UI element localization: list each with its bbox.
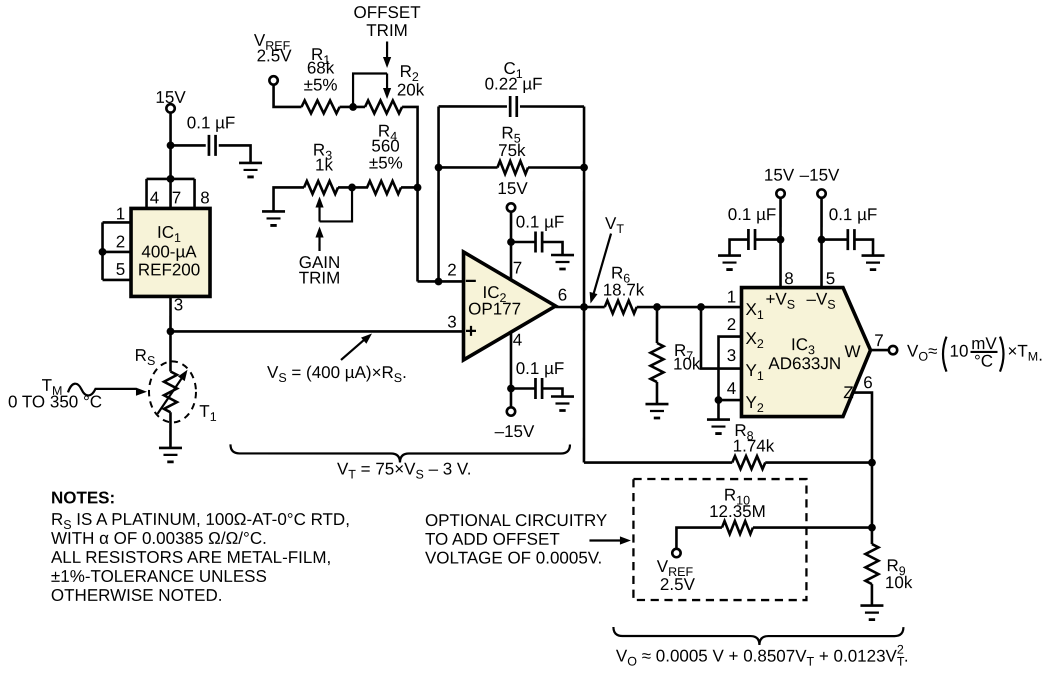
svg-text:6: 6 [863, 373, 872, 392]
ground R9 [860, 606, 883, 620]
wire R7 down [656, 307, 659, 343]
wire Y2 node to ground [717, 400, 720, 420]
svg-text:VS = (400 µA)×RS.: VS = (400 µA)×RS. [267, 363, 407, 385]
wire R4 right to branch [401, 186, 418, 189]
wire top pin bus of IC1 [147, 179, 195, 209]
wire wiper elbow to node [353, 73, 387, 107]
svg-text:AD633JN: AD633JN [768, 354, 841, 373]
svg-text:5: 5 [826, 269, 835, 288]
svg-text:400-µA: 400-µA [141, 242, 197, 261]
svg-text:0.1 µF: 0.1 µF [728, 205, 777, 224]
wire R6 to AD633 X1 [637, 306, 742, 309]
wire R3 to R4 [338, 186, 368, 189]
minus sign pin2 [466, 280, 476, 282]
resistor R9 10k [865, 544, 878, 584]
resistor R8 1.74k [732, 456, 765, 469]
resistor R10 12.35M [722, 521, 753, 534]
svg-text:6: 6 [558, 286, 567, 305]
resistor R2 20k pot [365, 100, 402, 113]
svg-text:±1%-TOLERANCE UNLESS: ±1%-TOLERANCE UNLESS [51, 567, 267, 586]
svg-text:7: 7 [513, 258, 522, 277]
ground pin4 cap [551, 397, 574, 411]
svg-text:OFFSET: OFFSET [354, 3, 421, 22]
wire cap to ground bottom [542, 389, 562, 397]
wire ground up to R3 [274, 187, 305, 211]
svg-text:7: 7 [172, 188, 181, 207]
wire R7 to ground [656, 382, 659, 404]
wire C1 row [439, 105, 585, 108]
svg-text:2.5V: 2.5V [660, 575, 696, 594]
svg-text:4: 4 [727, 379, 736, 398]
svg-text:REF200: REF200 [138, 260, 200, 279]
wire wiper elbow R3 to node [320, 187, 353, 221]
node supply cap junction bottom [507, 385, 515, 393]
svg-text:10k: 10k [885, 573, 913, 592]
brace VO equation [613, 627, 903, 645]
node R4 / R2-line junction [414, 184, 422, 192]
wire pin 3 down through RTD to ground [169, 296, 172, 371]
ground Y2 [707, 420, 730, 434]
arrow OFFSET TRIM pointer [386, 41, 388, 58]
arrow optional pointer [589, 539, 621, 541]
svg-text:±5%: ±5% [369, 153, 403, 172]
arrow VS pointer [341, 340, 364, 360]
svg-text:4: 4 [150, 188, 159, 207]
svg-text:4: 4 [513, 330, 522, 349]
svg-text:15V: 15V [497, 179, 528, 198]
wire node to OP177 pin 3 [171, 330, 464, 333]
svg-text:75k: 75k [498, 141, 526, 160]
wire VREF to R10 [676, 528, 722, 549]
terminal -15V [507, 407, 515, 415]
ground pin7 cap [551, 255, 574, 269]
wire X2 to Y2 tie [718, 337, 741, 401]
node R5 right [580, 164, 588, 172]
node R10 right [868, 524, 876, 532]
svg-text:VT: VT [605, 214, 624, 236]
wire node to cap bottom [511, 387, 536, 390]
node pin3 / output branch [167, 328, 175, 336]
svg-text:mV: mV [971, 334, 997, 353]
svg-text:W: W [844, 342, 860, 361]
wire -Vs node to cap [822, 238, 848, 241]
wire +Vs node to cap [755, 238, 781, 241]
wire R10 to node [753, 526, 872, 529]
wire 15V to pin7 [510, 212, 513, 279]
dashed box optional circuitry [633, 479, 806, 600]
wire pin6 output [556, 306, 605, 309]
svg-text:10: 10 [949, 342, 968, 361]
wire R1 to R2 [340, 106, 366, 109]
svg-text:3: 3 [174, 295, 183, 314]
capacitor 0.1uF at IC1 supply [209, 135, 216, 156]
svg-text:3: 3 [727, 346, 736, 365]
svg-text:×TM.: ×TM. [1007, 342, 1042, 365]
capacitor 0.1uF -Vs [848, 229, 855, 250]
ground -Vs cap [862, 256, 885, 270]
wire X1 to Y1 tie [701, 307, 742, 369]
svg-text:ALL RESISTORS ARE METAL-FILM,: ALL RESISTORS ARE METAL-FILM, [51, 548, 331, 567]
wire 15V to pin8 [779, 199, 782, 288]
svg-text:1k: 1k [315, 155, 333, 174]
svg-text:VO≈: VO≈ [907, 342, 937, 364]
svg-text:20k: 20k [397, 80, 425, 99]
svg-text:TRIM: TRIM [366, 21, 408, 40]
terminal 15V OP177 [507, 203, 515, 211]
wire cap to ground +Vs [730, 240, 749, 256]
svg-text:T1: T1 [199, 402, 216, 424]
wire capacitor to ground elbow [219, 145, 251, 163]
svg-text:–15V: –15V [495, 422, 535, 441]
terminal 15V IC1 [166, 104, 174, 112]
resistor R4 560 [367, 181, 401, 194]
wire R9 to ground [871, 584, 874, 606]
wire feedback left vertical [437, 106, 440, 281]
svg-text:0.1 µF: 0.1 µF [516, 359, 565, 378]
svg-text:0.1 µF: 0.1 µF [187, 113, 236, 132]
arrow VT pointer [594, 234, 612, 295]
IC U3 AD633JN body [741, 288, 870, 417]
wire 15V down to pin bus [169, 113, 172, 179]
svg-text:OTHERWISE NOTED.: OTHERWISE NOTED. [51, 586, 223, 605]
capacitor 0.1uF pin7 [536, 232, 543, 253]
ground R7 [645, 404, 668, 418]
wire Z pin to feedback vertical [853, 393, 872, 545]
svg-text:0.22 µF: 0.22 µF [485, 74, 543, 93]
arrow GAIN TRIM pointer [318, 235, 320, 251]
node R3/R4 junction [348, 184, 356, 192]
svg-text:VO ≈ 0.0005 V + 0.8507VT + 0.0: VO ≈ 0.0005 V + 0.8507VT + 0.0123VT2. [616, 643, 909, 669]
node supply cap junction top [507, 238, 515, 246]
node X1-Y1 branch [697, 303, 705, 311]
wire VREF to R1 [274, 85, 302, 107]
wire R8 row [584, 461, 872, 464]
wiper arrow R3 [318, 206, 320, 222]
svg-text:1.74k: 1.74k [733, 437, 775, 456]
wire W output pin7 [870, 349, 888, 352]
wire junction to capacitor [171, 144, 206, 147]
svg-text:15V: 15V [764, 166, 795, 185]
svg-text:0.1 µF: 0.1 µF [829, 205, 878, 224]
svg-text:RS: RS [135, 346, 156, 368]
op-amp IC2 OP177 [463, 252, 555, 360]
node pin 2 left bus [99, 248, 107, 256]
node R7 top [653, 303, 661, 311]
svg-text:TRIM: TRIM [299, 268, 341, 287]
svg-text:2.5V: 2.5V [257, 46, 293, 65]
wire feedback right vertical VT node line [583, 107, 586, 463]
wire node to cap [511, 241, 535, 244]
wire cap to ground -Vs [854, 240, 873, 256]
wire -15V to pin5 [820, 199, 823, 288]
wire cap to ground [542, 242, 562, 255]
wire R2 right to down branch [402, 107, 418, 282]
wire pin4 down [510, 332, 513, 406]
node feedback/R5 left [435, 164, 443, 172]
resistor RS RTD element [164, 372, 177, 413]
node R8 right [868, 459, 876, 467]
terminal W output [889, 346, 897, 354]
node R1/R2 wiper junction [349, 103, 357, 111]
ground +Vs cap [718, 256, 741, 270]
wire R5 row [439, 166, 585, 169]
node VT [580, 303, 588, 311]
svg-text:0.1 µF: 0.1 µF [516, 212, 565, 231]
node feedback/pin2 [435, 278, 443, 286]
resistor R7 10k [650, 343, 663, 382]
capacitor C1 0.22uF [510, 96, 517, 117]
wire left pin bus 1-2-5 [103, 222, 132, 280]
terminal 15V AD633 [776, 189, 784, 197]
svg-text:3: 3 [447, 312, 456, 331]
svg-text:VOLTAGE OF 0.0005V.: VOLTAGE OF 0.0005V. [425, 548, 602, 567]
svg-text:°C: °C [974, 352, 993, 371]
svg-text:8: 8 [784, 269, 793, 288]
terminal -15V AD633 [817, 189, 825, 197]
wiper arrow R2 [386, 73, 388, 89]
svg-text:2: 2 [116, 232, 125, 251]
svg-text:8: 8 [200, 188, 209, 207]
svg-text:7: 7 [874, 331, 883, 350]
svg-text:12.35M: 12.35M [709, 502, 766, 521]
resistor R6 18.7k [605, 301, 637, 314]
node supply/cap junction [167, 142, 175, 150]
wire squiggle TM to RTD [68, 384, 136, 396]
svg-text:10k: 10k [673, 355, 701, 374]
resistor R3 1k pot [304, 181, 338, 194]
capacitor 0.1uF pin4 [535, 378, 542, 399]
svg-text:VT = 75×VS – 3 V.: VT = 75×VS – 3 V. [337, 459, 471, 481]
svg-text:OP177: OP177 [468, 299, 521, 318]
svg-text:±5%: ±5% [304, 75, 338, 94]
wire branch to OP177 pin2 [418, 280, 464, 283]
plus sign pin3 [466, 326, 476, 336]
svg-text:NOTES:: NOTES: [51, 488, 115, 507]
node +Vs cap junction [777, 236, 785, 244]
resistor R5 75k [497, 161, 528, 174]
terminal VREF [269, 76, 277, 84]
arrow through RTD [157, 376, 183, 414]
node -Vs cap junction [818, 236, 826, 244]
node pin-7 bus junction [167, 175, 175, 183]
capacitor 0.1uF +Vs [748, 229, 755, 250]
svg-text:18.7k: 18.7k [603, 281, 645, 300]
dashed circle T1 [149, 361, 196, 422]
wire RTD bottom to ground [169, 412, 172, 448]
svg-text:1: 1 [116, 204, 125, 223]
svg-text:2: 2 [727, 315, 736, 334]
IC U1 REF200 body [131, 208, 210, 296]
svg-text:Z: Z [843, 383, 853, 402]
node Y2 ground junction [715, 396, 723, 404]
terminal VREF optional [672, 549, 680, 557]
ground below RTD [159, 448, 182, 462]
svg-text:–15V: –15V [800, 166, 840, 185]
svg-text:TO ADD OFFSET: TO ADD OFFSET [425, 530, 560, 549]
ground R3 left [262, 211, 285, 225]
svg-text:1: 1 [727, 288, 736, 307]
svg-text:5: 5 [116, 260, 125, 279]
ground for IC1 supply cap [239, 163, 262, 177]
resistor R1 68k [302, 100, 340, 113]
svg-text:OPTIONAL CIRCUITRY: OPTIONAL CIRCUITRY [425, 511, 607, 530]
svg-text:WITH α OF 0.00385 Ω/Ω/°C.: WITH α OF 0.00385 Ω/Ω/°C. [51, 529, 267, 548]
brace VT equation [230, 444, 570, 462]
svg-text:2: 2 [447, 260, 456, 279]
